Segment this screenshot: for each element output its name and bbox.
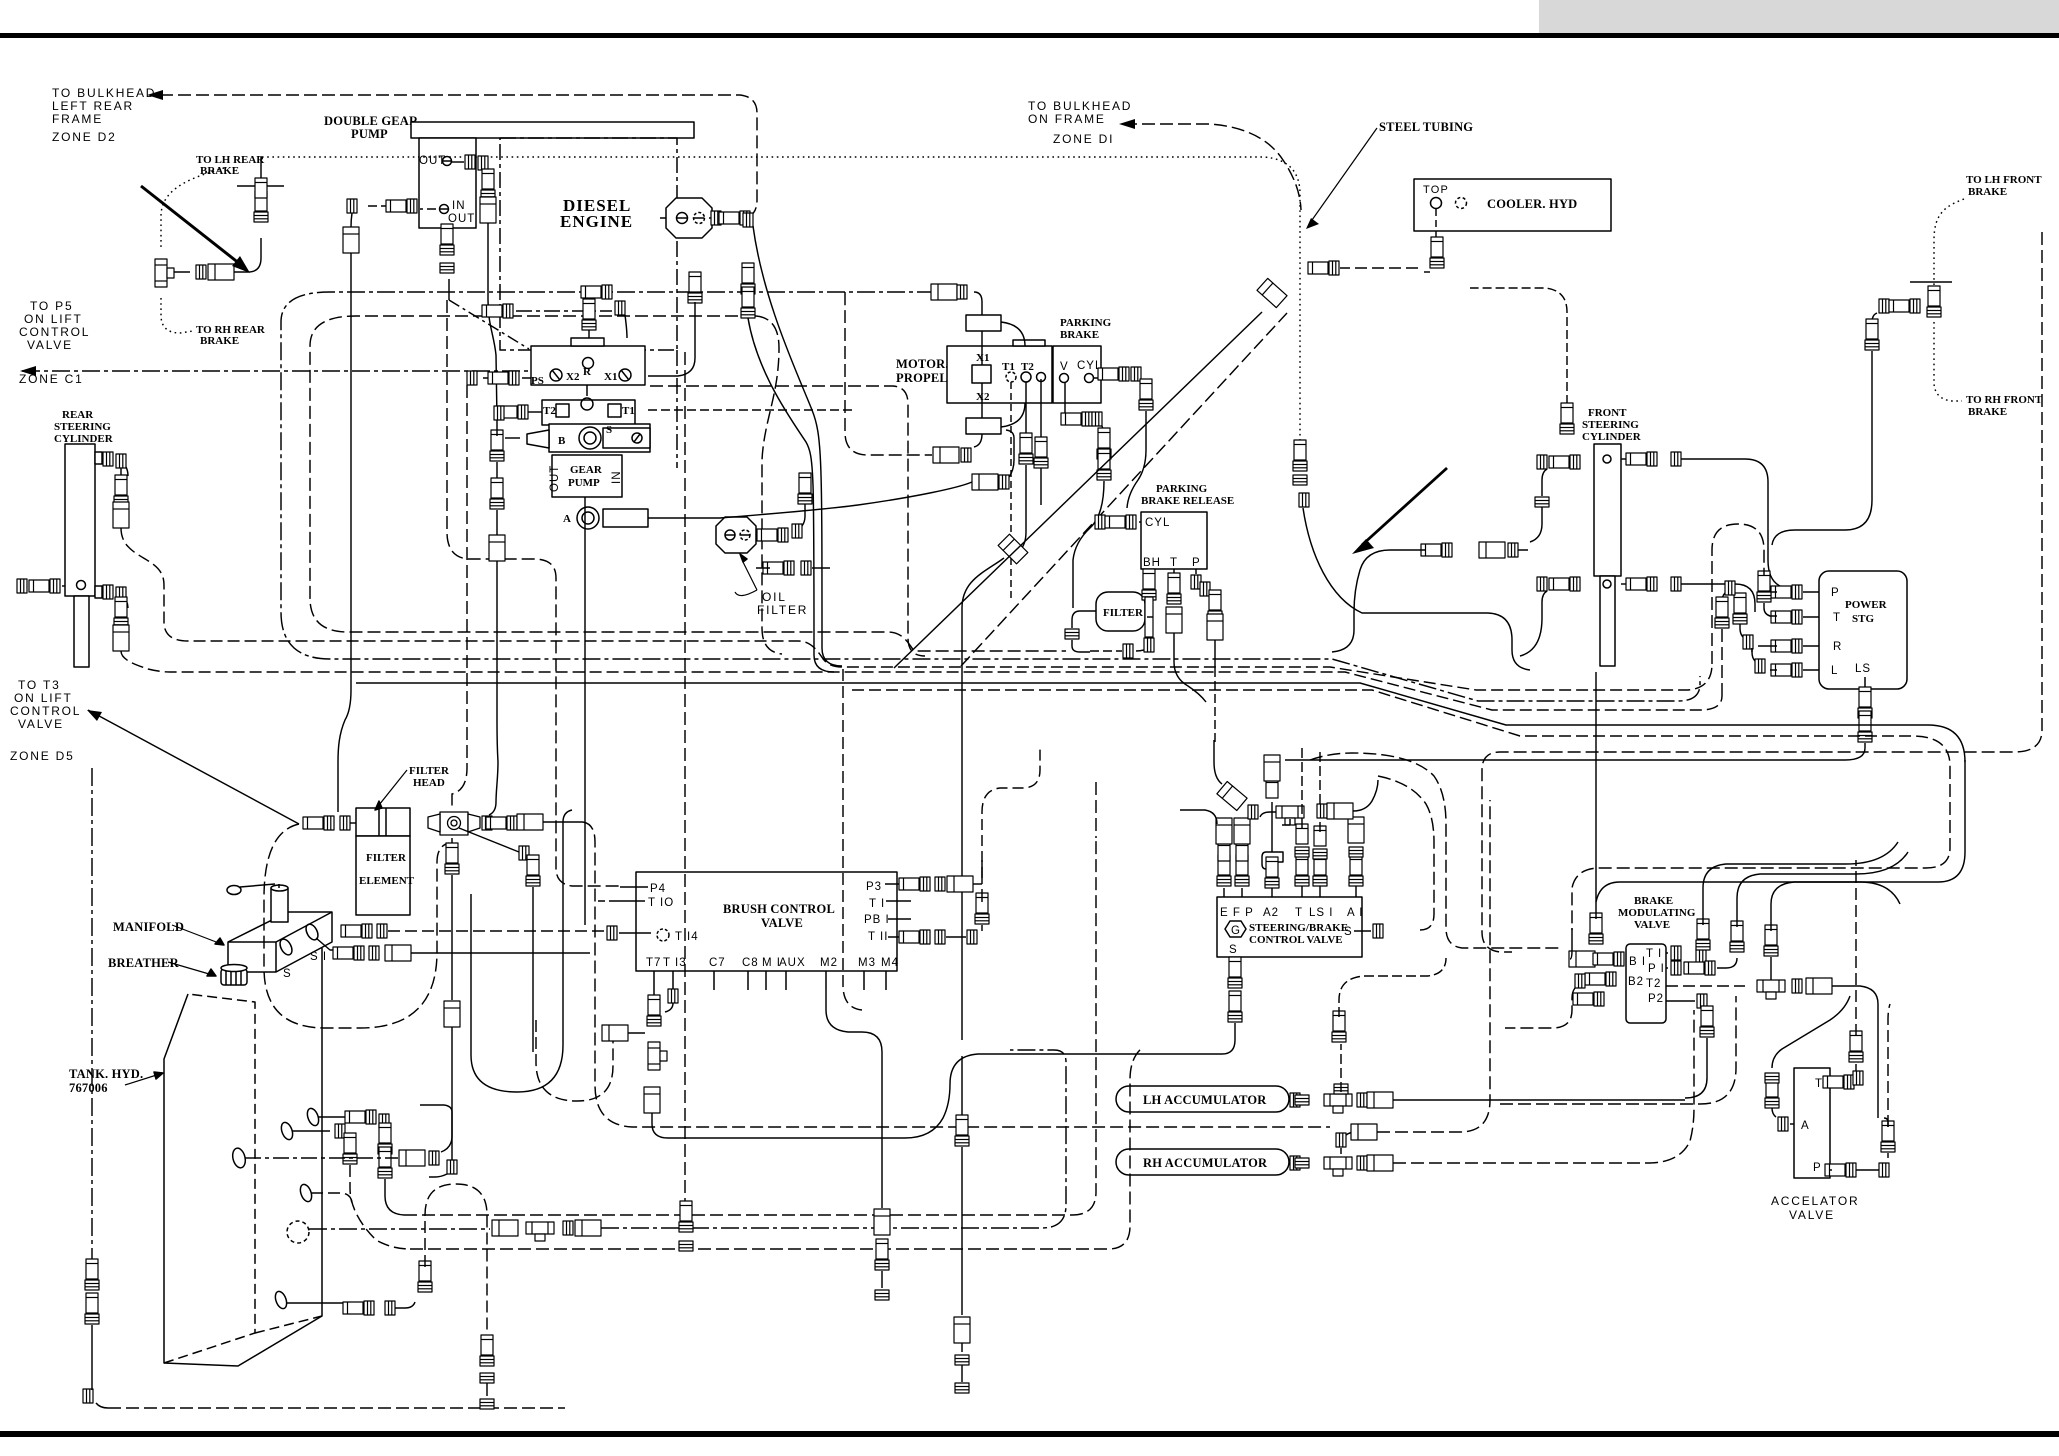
- wire: LH acc tee top dashed riser: [1340, 1044, 1342, 1092]
- brush control valve box: [636, 872, 897, 971]
- LH accumulator right fittings: [1290, 1093, 1300, 1107]
- wire: solid diagonal to release: [894, 312, 1262, 668]
- svg-text:STEERING: STEERING: [1582, 419, 1639, 431]
- svg-text:PUMP: PUMP: [351, 127, 388, 141]
- svg-text:T: T: [1170, 557, 1178, 569]
- svg-text:A: A: [1801, 1120, 1810, 1132]
- front cyl lower left tee: [1549, 577, 1580, 591]
- svg-text:OUT: OUT: [448, 213, 475, 225]
- wire: PS dashed to left elbow and long drop: [479, 377, 531, 379]
- svg-text:BRAKE: BRAKE: [200, 165, 239, 177]
- wire: BMV P2 elbow down to LH acc line: [1666, 1000, 1695, 1002]
- BCV T13 elbow: [668, 989, 678, 1003]
- wire: to lh front brake dotted: [1934, 199, 1964, 302]
- svg-text:TO T3: TO T3: [18, 678, 61, 692]
- manifold block: [228, 912, 332, 972]
- wire: tee to riser: [174, 238, 261, 272]
- svg-text:OUT: OUT: [419, 155, 446, 167]
- pump IN port: [440, 205, 449, 214]
- svg-text:T2: T2: [1646, 978, 1661, 990]
- svg-text:CYLINDER: CYLINDER: [1582, 431, 1642, 443]
- svg-text:STEEL TUBING: STEEL TUBING: [1379, 120, 1473, 134]
- svg-text:P: P: [1192, 557, 1201, 569]
- wire: R riser: [588, 302, 590, 346]
- svg-text:BRAKE: BRAKE: [1968, 186, 2007, 198]
- big arrow front cyl: [1362, 468, 1447, 545]
- svg-text:OUT: OUT: [549, 465, 561, 492]
- svg-text:MODULATING: MODULATING: [1618, 907, 1696, 919]
- svg-text:ZONE D5: ZONE D5: [10, 749, 75, 763]
- svg-text:FILTER: FILTER: [757, 603, 808, 617]
- wire: bus 1245 dashed: [410, 1048, 1142, 1249]
- svg-text:VALVE: VALVE: [1634, 919, 1670, 931]
- wire: engine inner dash-dot: [516, 310, 612, 312]
- svg-text:TO LH FRONT: TO LH FRONT: [1966, 174, 2042, 186]
- wire: tank U loop solid: [489, 510, 498, 815]
- svg-text:TO BULKHEAD: TO BULKHEAD: [1028, 99, 1132, 113]
- wire: dashed vertical to accel P elbow: [1888, 1004, 1890, 1127]
- double gear pump P1 top bar: [411, 122, 694, 138]
- tank hyd outline: [164, 948, 322, 1366]
- svg-text:ZONE C1: ZONE C1: [19, 372, 84, 386]
- svg-text:L: L: [1831, 665, 1838, 677]
- svg-text:BRAKE: BRAKE: [1634, 895, 1673, 907]
- svg-text:P3: P3: [866, 881, 882, 893]
- svg-text:T: T: [1295, 907, 1303, 919]
- wire: BMV P1 long fitting: [1666, 967, 1668, 969]
- svg-text:P: P: [1831, 587, 1840, 599]
- power stg T row feed: [1771, 610, 1802, 624]
- power stg box: [1819, 571, 1907, 689]
- wire: BCV T7 column down to S-jog line: [653, 995, 655, 1002]
- svg-text:E F P: E F P: [1220, 907, 1254, 919]
- wire: x585 solid vertical from gear S: [584, 497, 586, 925]
- wire: bus L5 solid: [356, 683, 1965, 762]
- wire: rear cyl top port dashed to bus L1: [121, 528, 1712, 690]
- accelator valve box: [1794, 1068, 1830, 1178]
- wire: T1 dashed drop: [1010, 382, 1012, 600]
- svg-text:M3: M3: [858, 957, 876, 969]
- SBCV diagonal fitting: [1217, 782, 1247, 811]
- svg-text:R: R: [1833, 641, 1842, 653]
- svg-text:RH ACCUMULATOR: RH ACCUMULATOR: [1143, 1156, 1268, 1170]
- front steering cylinder rod: [1600, 576, 1615, 666]
- release T drop: [1173, 569, 1175, 578]
- wire: T1 dashed row from gear block: [648, 409, 853, 411]
- svg-text:X2: X2: [976, 391, 990, 403]
- svg-text:HEAD: HEAD: [413, 777, 445, 789]
- rear steering cylinder body: [65, 444, 95, 596]
- svg-text:PS: PS: [531, 375, 544, 387]
- wire: tank bottom port row: [286, 1302, 350, 1304]
- wire: sbcv left feed curve: [1180, 810, 1217, 824]
- brake modulating valve box: [1626, 944, 1666, 1023]
- tee fitting on rear brake line: [155, 259, 174, 287]
- RH accumulator right fittings: [1290, 1156, 1300, 1170]
- charge pump A: [577, 507, 599, 529]
- wire: BMV T1 right elbow: [1666, 952, 1668, 954]
- gear/propel pump assembly: T-block: [542, 400, 635, 425]
- wire: below-pump dashed drop to right: [448, 279, 450, 300]
- svg-text:VALVE: VALVE: [18, 717, 64, 731]
- wire: to bulkhead D2 dashed hose: [160, 95, 757, 218]
- svg-text:BRUSH CONTROL: BRUSH CONTROL: [723, 902, 835, 916]
- wire: tank port row4 line to bus: [311, 1193, 352, 1205]
- wire: zone C1 dash-dot arrow line: [22, 370, 540, 372]
- power stg L row feed: [1771, 663, 1802, 677]
- cooler hyd box: [1414, 179, 1611, 231]
- svg-text:CONTROL: CONTROL: [10, 704, 81, 718]
- thick pointer arrow: [141, 186, 240, 264]
- svg-text:IN: IN: [452, 200, 466, 212]
- steel tubing leader: [1312, 128, 1377, 220]
- svg-text:ON FRAME: ON FRAME: [1028, 112, 1106, 126]
- svg-text:T7: T7: [646, 957, 661, 969]
- power stg upstream elbows: [1725, 581, 1735, 595]
- svg-text:M2: M2: [820, 957, 838, 969]
- manifold ports S S1: [278, 937, 295, 957]
- wire: loopA big dashed C: [281, 292, 1700, 701]
- bottom border bar: [0, 1431, 2059, 1437]
- power stg P row feed: [1771, 585, 1802, 599]
- svg-text:P2: P2: [1648, 993, 1664, 1005]
- front brake fitting cluster: [1879, 299, 1889, 313]
- wire: manifold S1 dash row: [341, 924, 372, 938]
- wire: A pump to x685 dash: [648, 482, 972, 518]
- oil filter right chain: [759, 534, 765, 536]
- wire: steel tubing dotted run to cooler: [262, 157, 1300, 446]
- svg-text:X2: X2: [566, 371, 580, 383]
- svg-text:LEFT REAR: LEFT REAR: [52, 99, 134, 113]
- svg-text:STG: STG: [1852, 613, 1874, 625]
- svg-text:M4: M4: [881, 957, 899, 969]
- svg-text:T: T: [1833, 612, 1841, 624]
- svg-text:C8: C8: [742, 957, 759, 969]
- svg-text:767006: 767006: [69, 1081, 108, 1095]
- svg-text:ON LIFT: ON LIFT: [24, 312, 83, 326]
- svg-text:P: P: [1813, 1162, 1822, 1174]
- wire: cooler dashed left run: [1340, 267, 1418, 269]
- svg-text:CYLINDER: CYLINDER: [54, 433, 114, 445]
- svg-text:REAR: REAR: [62, 409, 94, 421]
- filter head block: [356, 808, 410, 836]
- svg-text:IN: IN: [611, 471, 623, 485]
- svg-text:TANK. HYD.: TANK. HYD.: [69, 1067, 143, 1081]
- wire: far right bus pair to BMV sweep: [1572, 766, 1950, 930]
- motor propel box: [947, 346, 1052, 403]
- wire: L feed drop: [1751, 648, 1753, 652]
- wire: B cone connection: [505, 437, 520, 439]
- wire: LH acc to BMV P2: [1393, 1099, 1685, 1101]
- svg-text:B I: B I: [1629, 956, 1646, 968]
- filter capsule connections: [1072, 611, 1096, 628]
- svg-text:LH ACCUMULATOR: LH ACCUMULATOR: [1143, 1093, 1267, 1107]
- wire: x843 dashed drop: [843, 669, 862, 1010]
- wire: BMV label box left chains: [1569, 951, 1595, 967]
- oil filter leader arrow: [743, 562, 757, 590]
- svg-text:POWER: POWER: [1845, 599, 1888, 611]
- lh accumulator capsule: [1116, 1086, 1289, 1112]
- diesel engine outline (dash-dot): [500, 138, 677, 350]
- gear pump left fitting stacks: [490, 430, 504, 461]
- wire: accel A port chain: [1790, 1123, 1794, 1125]
- wire: tank left face port dash-dot row: [245, 1157, 398, 1159]
- release P drop elbow: [1195, 569, 1197, 574]
- svg-text:A2: A2: [1263, 907, 1279, 919]
- wire: X1 coupler feed chain: [931, 284, 957, 300]
- svg-text:VALVE: VALVE: [27, 338, 73, 352]
- svg-text:CYL: CYL: [1145, 517, 1170, 529]
- svg-text:BRAKE RELEASE: BRAKE RELEASE: [1141, 495, 1234, 507]
- wire: dotted lower end at fitting: [1293, 440, 1307, 471]
- wire: right edge dashed frame: [1482, 232, 2042, 952]
- filter head right tee: [428, 812, 480, 835]
- top border bar: [0, 33, 2059, 38]
- svg-text:S: S: [283, 968, 292, 980]
- manifold leader arrow: [172, 925, 224, 945]
- pump OUT port: [443, 157, 452, 166]
- svg-text:P4: P4: [650, 883, 666, 895]
- svg-text:AUX: AUX: [779, 957, 806, 969]
- wire: S plug: [1373, 924, 1383, 938]
- tee stub fitting: [602, 1025, 628, 1041]
- SBCV top tee: [1276, 806, 1304, 825]
- svg-text:MANIFOLD: MANIFOLD: [113, 920, 184, 934]
- svg-text:S: S: [606, 424, 612, 436]
- wire: x885 column: [826, 990, 882, 1208]
- steel tube diagonal fitting: [1257, 278, 1287, 307]
- wire: T2 solid drop long: [1019, 382, 1026, 551]
- wire: manifold S row: [316, 938, 342, 950]
- parking brake release: CYL chain: [1095, 515, 1105, 529]
- svg-text:PB I: PB I: [864, 914, 890, 926]
- wire: BCV T11 chain: [888, 936, 905, 938]
- svg-text:CONTROL VALVE: CONTROL VALVE: [1249, 934, 1343, 946]
- wire: to T3 leader diagonal: [88, 710, 299, 824]
- svg-text:TO RH FRONT: TO RH FRONT: [1966, 394, 2043, 406]
- svg-text:R: R: [583, 366, 592, 378]
- propel pump center block: [549, 424, 650, 452]
- svg-text:ELEMENT: ELEMENT: [359, 875, 415, 887]
- wire: IN elbow long solid down left side: [338, 253, 351, 812]
- svg-text:VALVE: VALVE: [1789, 1208, 1835, 1222]
- svg-text:T I3: T I3: [663, 957, 687, 969]
- breather cap on tank: [221, 969, 247, 985]
- wire: SBCV risers and fittings: [1224, 886, 1356, 897]
- front cyl upper left tee: [1549, 455, 1580, 469]
- wire: filter element drop: [451, 838, 453, 848]
- wire: V-port drop from parking brake: [1064, 382, 1066, 413]
- pump OUT fittings: [451, 161, 464, 163]
- svg-text:BRAKE: BRAKE: [1060, 329, 1099, 341]
- oil filter lower chain: [763, 561, 794, 575]
- svg-text:MOTOR.: MOTOR.: [896, 357, 949, 371]
- front steering cylinder body: [1594, 444, 1621, 576]
- wire: tank port row2: [292, 1130, 330, 1132]
- svg-text:ENGINE: ENGINE: [560, 212, 633, 231]
- wire: dead-end column x962: [961, 1056, 963, 1120]
- wire: bus L4 dashed: [852, 690, 1950, 766]
- svg-text:B2: B2: [1628, 976, 1644, 988]
- breather pipe on manifold: [271, 888, 288, 922]
- svg-text:BRAKE: BRAKE: [200, 335, 239, 347]
- svg-text:G: G: [1231, 925, 1241, 937]
- wire: BCV P3 loop: [885, 883, 905, 885]
- wire: to lh rear brake dotted: [161, 168, 224, 248]
- svg-text:TO P5: TO P5: [30, 299, 73, 313]
- svg-text:X1: X1: [976, 352, 989, 364]
- parking brake release box: [1141, 512, 1207, 569]
- svg-text:DOUBLE GEAR: DOUBLE GEAR: [324, 114, 419, 128]
- wire: bus 1215 dashed: [404, 838, 1096, 1215]
- engine octagon fitting: [666, 198, 712, 238]
- svg-text:T2: T2: [543, 405, 556, 417]
- wire: SBCV S drop: [1234, 957, 1236, 962]
- svg-text:X1: X1: [604, 371, 617, 383]
- svg-text:T: T: [1815, 1078, 1823, 1090]
- svg-text:LS I: LS I: [1309, 907, 1333, 919]
- svg-text:S: S: [1229, 944, 1238, 956]
- svg-text:FILTER: FILTER: [409, 765, 450, 777]
- power stg R row feed: [1771, 639, 1802, 653]
- fitting chain rear brake: [196, 265, 206, 279]
- svg-text:A I: A I: [1347, 907, 1363, 919]
- svg-text:FILTER: FILTER: [1103, 607, 1144, 619]
- parking brake box: [1053, 346, 1101, 403]
- svg-text:CONTROL: CONTROL: [19, 325, 90, 339]
- wire: accel T port chain: [1830, 1081, 1836, 1083]
- wire: left dash-dot vertical x92: [91, 768, 93, 1262]
- rear steering cylinder rod: [74, 596, 89, 667]
- svg-text:B: B: [558, 435, 566, 447]
- oil filter octagon: [716, 517, 756, 553]
- svg-text:T I: T I: [869, 898, 885, 910]
- svg-text:COOLER. HYD: COOLER. HYD: [1487, 197, 1577, 211]
- wire: tank U loop dashed inner: [536, 1020, 613, 1101]
- svg-text:TOP: TOP: [1423, 184, 1449, 196]
- filter head leader arrow: [375, 770, 407, 810]
- wire: front cyl top riser: [1470, 288, 1567, 404]
- wire: LS drop: [1858, 687, 1872, 718]
- rh accumulator capsule: [1116, 1149, 1289, 1175]
- svg-text:BH: BH: [1143, 557, 1161, 569]
- parking brake release filter capsule: [1096, 592, 1145, 631]
- wire: to rh rear brake dotted: [161, 298, 193, 333]
- svg-text:PARKING: PARKING: [1156, 483, 1208, 495]
- svg-text:T I: T I: [1646, 948, 1662, 960]
- SBCV right top chain: [1317, 804, 1327, 818]
- svg-text:FRONT: FRONT: [1588, 407, 1627, 419]
- wire: loop from P4/T10 region left big dashed U: [598, 900, 618, 902]
- horizontal chain left of front cyl: [1421, 543, 1452, 557]
- svg-text:STEERING: STEERING: [54, 421, 111, 433]
- svg-text:C7: C7: [709, 957, 726, 969]
- svg-text:T1: T1: [622, 405, 635, 417]
- wire: front cyl chain drop join: [1332, 550, 1390, 652]
- wire: X2 chain below: [974, 434, 982, 447]
- svg-text:TO BULKHEAD: TO BULKHEAD: [52, 86, 156, 100]
- wire: RH acc dashed to accel area: [1393, 1010, 1694, 1163]
- svg-text:T I4: T I4: [675, 931, 699, 943]
- svg-text:FRAME: FRAME: [52, 112, 103, 126]
- wire: arch left of power stg: [1712, 524, 1764, 664]
- wire: filter head left line and U loop: [264, 824, 449, 1028]
- svg-text:LS: LS: [1855, 663, 1871, 675]
- front cyl lower right chain: [1621, 583, 1630, 585]
- wire: loopB inner dashed C: [310, 316, 1066, 651]
- wire: cooler drop: [1435, 209, 1437, 243]
- rear cylinder top port chain: [95, 452, 102, 464]
- double gear pump P1 body: [419, 138, 476, 228]
- svg-text:GEAR: GEAR: [570, 464, 603, 476]
- propel PS block: [449, 300, 529, 349]
- tank port ellipses: [305, 1107, 321, 1127]
- svg-text:T1: T1: [1002, 361, 1015, 373]
- breather leader arrow: [168, 962, 216, 976]
- svg-text:P I: P I: [1648, 963, 1665, 975]
- svg-text:PROPEL: PROPEL: [896, 371, 948, 385]
- svg-text:BREATHER: BREATHER: [108, 956, 180, 970]
- wire: bus 1228 dash-dot from dashed circle: [309, 1228, 490, 1230]
- filter element box: [356, 836, 410, 915]
- rear cylinder left chain: [17, 579, 27, 593]
- wire: tank port row1: [318, 1116, 352, 1118]
- wire: dashed diagonal steel tube: [961, 313, 1287, 666]
- svg-text:PUMP: PUMP: [568, 477, 600, 489]
- svg-text:ZONE D2: ZONE D2: [52, 130, 117, 144]
- svg-text:A: A: [563, 513, 571, 525]
- svg-text:T2: T2: [1021, 361, 1034, 373]
- svg-text:ACCELATOR: ACCELATOR: [1771, 1194, 1859, 1208]
- svg-text:VALVE: VALVE: [761, 916, 803, 930]
- svg-text:ON LIFT: ON LIFT: [14, 691, 73, 705]
- wire: dashed parallel to LH line: [1500, 996, 1736, 1104]
- wire: RH acc tee top elbow row: [1336, 1133, 1346, 1147]
- wire: CYL-port to parking brake release: [1093, 377, 1110, 379]
- title block gray corner: [1539, 0, 2059, 33]
- wire: sbcv right big dashed sweeps: [1310, 753, 1560, 948]
- octagon chain to dashed riser: [660, 217, 712, 219]
- gear pump box: [552, 455, 622, 497]
- svg-text:BRAKE: BRAKE: [1968, 406, 2007, 418]
- steering/brake control valve box: [1217, 897, 1362, 957]
- svg-text:STEERING/BRAKE: STEERING/BRAKE: [1249, 922, 1348, 934]
- wire: BMV T2 row tee and accel P feed: [1666, 985, 1745, 987]
- svg-text:T II: T II: [868, 931, 888, 943]
- svg-text:S I: S I: [310, 951, 327, 963]
- svg-text:S: S: [1344, 926, 1353, 938]
- svg-text:ZONE DI: ZONE DI: [1053, 132, 1114, 146]
- svg-text:PARKING: PARKING: [1060, 317, 1112, 329]
- wire: x685 dashed vertical: [684, 352, 686, 1205]
- tank leader arrow: [125, 1073, 163, 1085]
- wire: to bulkhead D1 dashed: [1124, 124, 1301, 210]
- svg-text:OIL: OIL: [762, 590, 787, 604]
- wire: to rh front brake dotted: [1934, 322, 1962, 401]
- svg-text:T IO: T IO: [648, 897, 674, 909]
- wire: rear cyl bottom port dashed to bus L6: [121, 651, 1722, 710]
- front cyl upper right chain: [1621, 458, 1630, 460]
- svg-text:FILTER: FILTER: [366, 852, 407, 864]
- fittings below pump: [440, 224, 454, 255]
- rear cylinder bottom port chain: [95, 586, 102, 598]
- svg-text:V: V: [1060, 361, 1069, 373]
- wire: pump IN dashed: [365, 206, 436, 209]
- release BH drop: [1148, 569, 1150, 576]
- left bottom fitting column: [85, 1259, 99, 1290]
